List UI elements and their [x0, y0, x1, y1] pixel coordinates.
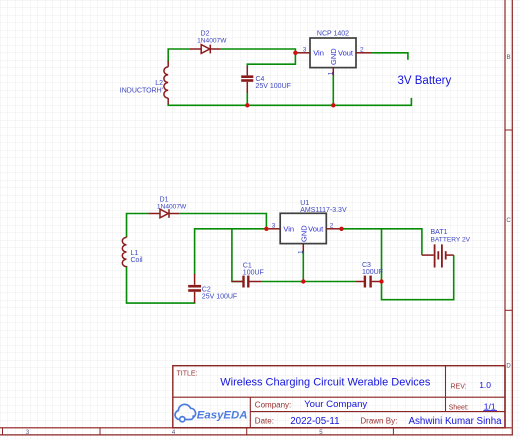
wire gnd rail C1 to C3 [262, 281, 356, 283]
svg-text:100UF: 100UF [243, 269, 264, 276]
svg-text:D1: D1 [160, 196, 169, 203]
svg-text:3: 3 [303, 47, 307, 54]
pin 3 stub U1 [266, 228, 280, 230]
wire bottom rail top circuit [168, 98, 411, 105]
svg-text:Your Company: Your Company [304, 399, 367, 410]
frame tick right B/C [505, 129, 512, 131]
wire Vout to 3V battery [371, 53, 408, 60]
wire C2 top to Vin junction [195, 229, 267, 275]
title block row divider 1 [173, 396, 505, 398]
battery BAT1 [422, 244, 454, 267]
svg-text:Drawn By:: Drawn By: [360, 417, 397, 426]
wire Vin junction to C4 [247, 53, 295, 67]
svg-text:Ashwini Kumar Sinha: Ashwini Kumar Sinha [409, 416, 503, 427]
svg-text:1N4007W: 1N4007W [157, 203, 187, 210]
svg-text:Vout: Vout [338, 48, 354, 57]
svg-text:1: 1 [328, 71, 335, 75]
junction dot Vin top [293, 51, 297, 55]
svg-text:Date:: Date: [255, 417, 274, 426]
svg-text:3: 3 [272, 223, 276, 230]
svg-text:GND: GND [329, 48, 338, 65]
capacitor C1 [232, 276, 262, 288]
wire L1 top to D1 [127, 214, 149, 238]
wire L2 top to D2 [168, 49, 190, 63]
svg-text:2: 2 [330, 222, 334, 229]
svg-text:GND: GND [299, 225, 308, 242]
pin 3 stub NCP1402 [295, 52, 310, 54]
frame tick right C/D [505, 309, 512, 311]
junction dot GND rail U1 [301, 279, 305, 283]
title block REV column divider [445, 366, 447, 412]
junction dot Vin U1 [264, 227, 268, 231]
wire L1 bottom rail [127, 266, 195, 303]
svg-text:BAT1: BAT1 [431, 229, 448, 236]
svg-text:1N4007W: 1N4007W [197, 38, 227, 45]
inductor L2 [164, 61, 168, 104]
op-amp U1 AMS1117 body [280, 213, 326, 243]
sheet frame bottom inner border [0, 427, 512, 429]
wire D1 to Vin U1 [179, 214, 266, 229]
svg-text:D: D [506, 363, 511, 369]
svg-text:25V 100UF: 25V 100UF [256, 83, 291, 90]
svg-text:Vout: Vout [308, 224, 324, 233]
svg-text:2: 2 [360, 47, 364, 54]
svg-text:C: C [506, 218, 511, 224]
junction dot C3 right [379, 279, 383, 283]
wire D2 to Vin step [221, 49, 296, 53]
pin 1 stub U1 [302, 244, 304, 252]
sheet frame bottom outer border [0, 434, 513, 436]
junction dot C4 rail [245, 103, 249, 107]
svg-text:1/1: 1/1 [484, 401, 496, 411]
sheet frame right outer border [511, 0, 513, 436]
capacitor C2 [188, 274, 201, 303]
svg-text:C4: C4 [256, 76, 265, 83]
title block outer border [173, 366, 505, 428]
frame tick bottom 3/4 [99, 428, 101, 435]
svg-text:INDUCTORH': INDUCTORH' [120, 87, 163, 94]
svg-text:B: B [507, 55, 511, 61]
wire C1 branch down [232, 229, 242, 282]
pin 2 stub U1 [326, 228, 341, 230]
op-amp U2 NCP1402 body [310, 38, 356, 68]
svg-text:Vin: Vin [313, 48, 324, 57]
svg-text:25V 100UF: 25V 100UF [202, 294, 237, 301]
frame tick bottom 4/5 [246, 428, 248, 435]
svg-text:Coil: Coil [131, 257, 144, 264]
inductor L1 [122, 237, 126, 268]
wire C4 bottom to rail [246, 93, 248, 106]
title block row divider 2 [250, 411, 505, 413]
svg-text:NCP 1402: NCP 1402 [317, 31, 349, 38]
svg-text:100UF: 100UF [362, 269, 383, 276]
svg-text:BATTERY 2V: BATTERY 2V [431, 236, 471, 243]
underline 1/1 [483, 410, 497, 412]
svg-text:Sheet:: Sheet: [449, 404, 469, 411]
capacitor C3 [356, 276, 382, 288]
svg-text:TITLE:: TITLE: [177, 371, 198, 378]
svg-text:EasyEDA: EasyEDA [197, 410, 248, 422]
wire U1 GND to rail [302, 251, 304, 282]
svg-text:L2: L2 [155, 80, 163, 87]
junction dot GND rail top [331, 103, 335, 107]
svg-text:C1: C1 [243, 262, 252, 269]
svg-text:D2: D2 [201, 31, 210, 38]
svg-text:Wireless Charging Circuit Wera: Wireless Charging Circuit Werable Device… [220, 376, 431, 388]
capacitor C4 [241, 66, 253, 93]
frame tick bottom left [2, 428, 4, 435]
wire Vout U1 to battery [342, 229, 422, 255]
svg-text:Company:: Company: [255, 401, 291, 410]
svg-text:1.0: 1.0 [479, 380, 491, 390]
title block logo column divider [249, 397, 251, 427]
svg-text:U1: U1 [300, 200, 309, 207]
svg-text:1: 1 [298, 250, 305, 254]
frame tick bottom 5/6 [392, 428, 394, 435]
svg-text:C3: C3 [362, 262, 371, 269]
EasyEDA logo cloud [175, 404, 196, 421]
wire U2 GND to rail [332, 75, 334, 106]
svg-text:REV:: REV: [451, 383, 467, 390]
wire C3 junction down to battery return [382, 229, 454, 300]
svg-text:3V Battery: 3V Battery [398, 75, 452, 87]
pin 1 stub NCP1402 [332, 68, 334, 76]
sheet frame right inner border [504, 0, 506, 428]
svg-text:Vin: Vin [283, 224, 294, 233]
pin 2 stub NCP1402 [356, 52, 371, 54]
diode D1 [149, 209, 180, 218]
junction dot Vout U1 [339, 227, 343, 231]
svg-text:AMS1117-3.3V: AMS1117-3.3V [300, 207, 347, 214]
diode D2 [190, 45, 221, 54]
svg-text:2022-05-11: 2022-05-11 [290, 416, 339, 427]
